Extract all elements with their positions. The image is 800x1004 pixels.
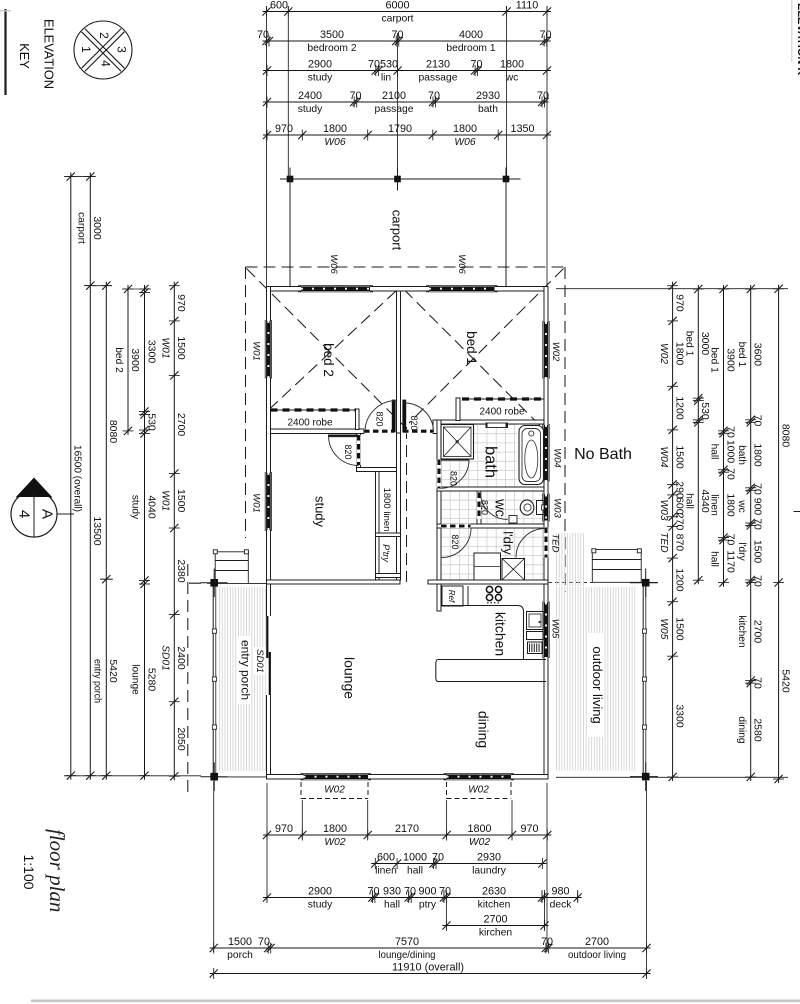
svg-text:lounge/dining: lounge/dining [379,950,436,961]
svg-text:3300: 3300 [145,340,157,364]
svg-text:W01: W01 [251,493,262,513]
svg-text:2700: 2700 [752,620,764,644]
svg-text:1800: 1800 [724,493,736,517]
svg-text:bath: bath [478,104,498,115]
svg-text:TED: TED [658,532,669,553]
svg-text:8080: 8080 [779,424,791,448]
svg-text:1000: 1000 [724,440,736,464]
svg-text:820: 820 [375,411,385,426]
svg-text:2: 2 [97,32,111,39]
svg-text:W05: W05 [658,618,669,639]
svg-text:W02: W02 [658,343,669,364]
svg-text:lounge: lounge [130,664,141,695]
svg-text:2700: 2700 [175,413,187,437]
svg-text:70: 70 [428,90,440,102]
svg-text:1000: 1000 [403,852,427,864]
svg-text:1800: 1800 [323,123,347,135]
svg-text:l'dry: l'dry [736,542,747,561]
svg-text:SD01: SD01 [160,645,171,670]
svg-text:13500: 13500 [91,516,103,545]
svg-text:2630: 2630 [482,886,506,898]
svg-text:passage: passage [375,104,414,115]
svg-text:passage: passage [419,73,458,84]
svg-text:study: study [308,900,333,911]
svg-text:3900: 3900 [129,348,141,372]
svg-text:820: 820 [409,415,419,430]
svg-text:1170: 1170 [724,550,736,573]
svg-text:W01: W01 [251,341,262,361]
svg-text:70: 70 [349,90,361,102]
svg-text:3600: 3600 [752,343,764,367]
svg-text:study: study [298,104,323,115]
svg-text:8080: 8080 [107,420,119,444]
svg-text:dining: dining [736,716,747,744]
svg-text:5420: 5420 [107,659,119,683]
svg-text:study: study [308,73,333,84]
svg-text:W01: W01 [160,490,171,511]
svg-text:70: 70 [724,534,736,546]
svg-text:bed 1: bed 1 [684,331,695,357]
svg-text:870: 870 [673,534,685,552]
svg-text:530: 530 [699,402,711,420]
svg-text:2930: 2930 [477,852,501,864]
svg-text:deck: deck [550,900,573,911]
svg-text:600: 600 [377,852,395,864]
svg-text:linen: linen [709,494,720,516]
svg-text:820: 820 [450,534,460,549]
svg-text:W06: W06 [328,254,339,274]
svg-text:970: 970 [275,823,293,835]
svg-text:linen: linen [375,866,397,877]
svg-text:930: 930 [383,886,401,898]
svg-text:1800 linen: 1800 linen [381,488,392,532]
svg-text:3500: 3500 [320,29,344,41]
svg-text:1790: 1790 [388,123,412,135]
svg-text:carport: carport [381,14,413,25]
svg-text:1: 1 [79,46,93,53]
svg-text:2900: 2900 [308,886,332,898]
svg-text:530: 530 [380,59,398,71]
svg-text:TED: TED [550,534,561,553]
svg-text:70: 70 [752,677,764,689]
svg-text:Ref: Ref [447,590,456,603]
svg-text:70: 70 [257,29,269,41]
svg-text:3900: 3900 [724,348,736,372]
svg-text:6000: 6000 [385,0,409,12]
svg-text:bed 1: bed 1 [464,331,479,365]
svg-text:70: 70 [258,936,270,948]
svg-text:1500: 1500 [175,489,187,513]
svg-text:W02: W02 [468,785,489,796]
svg-text:hall: hall [709,551,720,567]
svg-text:1500: 1500 [673,445,685,469]
svg-text:No Bath: No Bath [574,446,632,463]
svg-text:bath: bath [482,446,500,478]
svg-text:hall: hall [709,444,720,460]
svg-text:1200: 1200 [673,396,685,420]
svg-text:ELEVATION: ELEVATION [42,19,57,89]
svg-text:W02: W02 [324,785,345,796]
svg-text:2400: 2400 [175,646,187,670]
svg-text:W02: W02 [324,837,345,848]
svg-text:2700: 2700 [483,914,507,926]
svg-text:820: 820 [480,500,490,515]
svg-text:1500: 1500 [752,540,764,564]
svg-text:hall: hall [684,493,695,509]
svg-text:bed 2: bed 2 [113,347,124,373]
svg-text:5280: 5280 [145,668,157,692]
svg-text:bed 2: bed 2 [321,343,336,377]
svg-text:820: 820 [343,444,353,459]
svg-text:1350: 1350 [510,123,534,135]
svg-text:4: 4 [16,510,33,518]
svg-text:carport: carport [76,212,87,244]
svg-text:W05: W05 [550,619,561,639]
svg-text:70: 70 [368,59,380,71]
svg-text:11910 (overall): 11910 (overall) [392,962,464,974]
svg-text:5420: 5420 [779,669,791,693]
svg-text:1200: 1200 [673,568,685,592]
svg-text:1800: 1800 [752,443,764,467]
svg-text:carport: carport [390,210,405,251]
svg-text:1800: 1800 [500,59,524,71]
svg-text:ptry: ptry [419,900,437,911]
svg-text:4040: 4040 [145,495,157,519]
svg-text:600: 600 [270,0,288,12]
svg-text:W04: W04 [658,447,669,468]
svg-text:3300: 3300 [673,704,685,728]
svg-text:study: study [130,495,141,520]
svg-text:1800: 1800 [467,823,491,835]
svg-text:70: 70 [724,468,736,480]
svg-text:lounge: lounge [342,657,358,699]
svg-text:530: 530 [145,413,157,431]
svg-text:2170: 2170 [395,823,419,835]
svg-text:970: 970 [275,123,293,135]
svg-text:2900: 2900 [308,59,332,71]
svg-text:P'try: P'try [381,544,391,562]
svg-text:1500: 1500 [228,936,252,948]
svg-text:1110: 1110 [516,0,538,12]
svg-text:1:100: 1:100 [21,854,37,889]
svg-text:ELEVATION K: ELEVATION K [795,3,800,75]
svg-text:2400 robe: 2400 robe [479,407,524,418]
svg-text:entry porch: entry porch [239,640,253,700]
svg-text:3000: 3000 [91,216,103,240]
svg-text:lin: lin [381,73,392,84]
svg-text:SD01: SD01 [254,649,265,673]
svg-text:W06: W06 [456,254,467,274]
svg-text:laundry: laundry [472,866,507,877]
svg-text:study: study [313,496,328,528]
svg-text:980: 980 [551,886,569,898]
svg-text:1500: 1500 [175,336,187,360]
svg-text:bath: bath [736,445,747,465]
svg-text:1800: 1800 [453,123,477,135]
svg-text:A: A [39,509,56,519]
svg-text:900: 900 [418,886,436,898]
svg-text:70: 70 [752,575,764,587]
svg-text:70: 70 [539,29,551,41]
svg-text:70: 70 [432,852,444,864]
svg-text:W02: W02 [550,342,561,362]
svg-text:4000: 4000 [459,29,483,41]
svg-text:W03: W03 [552,498,563,518]
svg-text:16500 (overall): 16500 (overall) [72,445,84,512]
svg-text:2700: 2700 [585,936,609,948]
svg-text:kirchen: kirchen [479,928,512,939]
svg-text:W02: W02 [469,837,490,848]
svg-text:bed 1: bed 1 [709,347,720,373]
svg-text:bedroom 2: bedroom 2 [307,43,357,54]
svg-text:900: 900 [752,498,764,516]
svg-text:970: 970 [520,823,538,835]
svg-text:outdoor living: outdoor living [590,646,605,723]
svg-text:2400: 2400 [298,90,322,102]
svg-text:70: 70 [724,426,736,438]
svg-text:bedroom 1: bedroom 1 [446,43,496,54]
svg-text:entry porch: entry porch [92,659,103,703]
svg-text:2400 robe: 2400 robe [287,418,332,429]
svg-text:70: 70 [367,886,379,898]
svg-text:2930: 2930 [476,90,500,102]
svg-text:4: 4 [99,60,113,67]
svg-text:7570: 7570 [395,936,419,948]
svg-text:70: 70 [752,518,764,530]
svg-text:porch: porch [227,950,253,961]
svg-text:270: 270 [673,513,685,531]
svg-text:kitchen: kitchen [478,900,511,911]
svg-text:1500: 1500 [673,617,685,641]
svg-text:l'dry: l'dry [501,531,516,555]
svg-text:2580: 2580 [752,718,764,742]
svg-text:outdoor living: outdoor living [568,950,626,961]
svg-text:hall: hall [384,900,400,911]
svg-text:2050: 2050 [175,727,187,751]
svg-text:dining: dining [476,711,492,748]
svg-text:KEY: KEY [17,43,32,69]
svg-text:bed 1: bed 1 [736,342,747,368]
svg-text:W06: W06 [324,137,345,148]
svg-text:2130: 2130 [426,59,450,71]
svg-text:kitchen: kitchen [493,612,509,656]
svg-text:70: 70 [439,886,451,898]
svg-text:3: 3 [115,46,129,53]
svg-text:wc: wc [492,498,508,517]
svg-text:kitchen: kitchen [736,615,747,647]
svg-text:hall: hall [407,866,423,877]
svg-text:W04: W04 [552,448,563,468]
svg-text:2380: 2380 [175,559,187,583]
svg-text:W06: W06 [454,137,475,148]
svg-text:W01: W01 [160,338,171,359]
svg-text:1800: 1800 [323,823,347,835]
svg-text:70: 70 [404,886,416,898]
svg-text:970: 970 [673,294,685,312]
svg-text:70: 70 [470,59,482,71]
svg-text:2100: 2100 [382,90,406,102]
svg-text:970: 970 [175,294,187,312]
svg-text:W03: W03 [658,500,669,521]
svg-text:820: 820 [449,471,459,486]
svg-text:70: 70 [752,483,764,495]
svg-text:wc: wc [736,499,747,512]
svg-text:70: 70 [752,415,764,427]
svg-text:floor plan: floor plan [45,829,69,912]
